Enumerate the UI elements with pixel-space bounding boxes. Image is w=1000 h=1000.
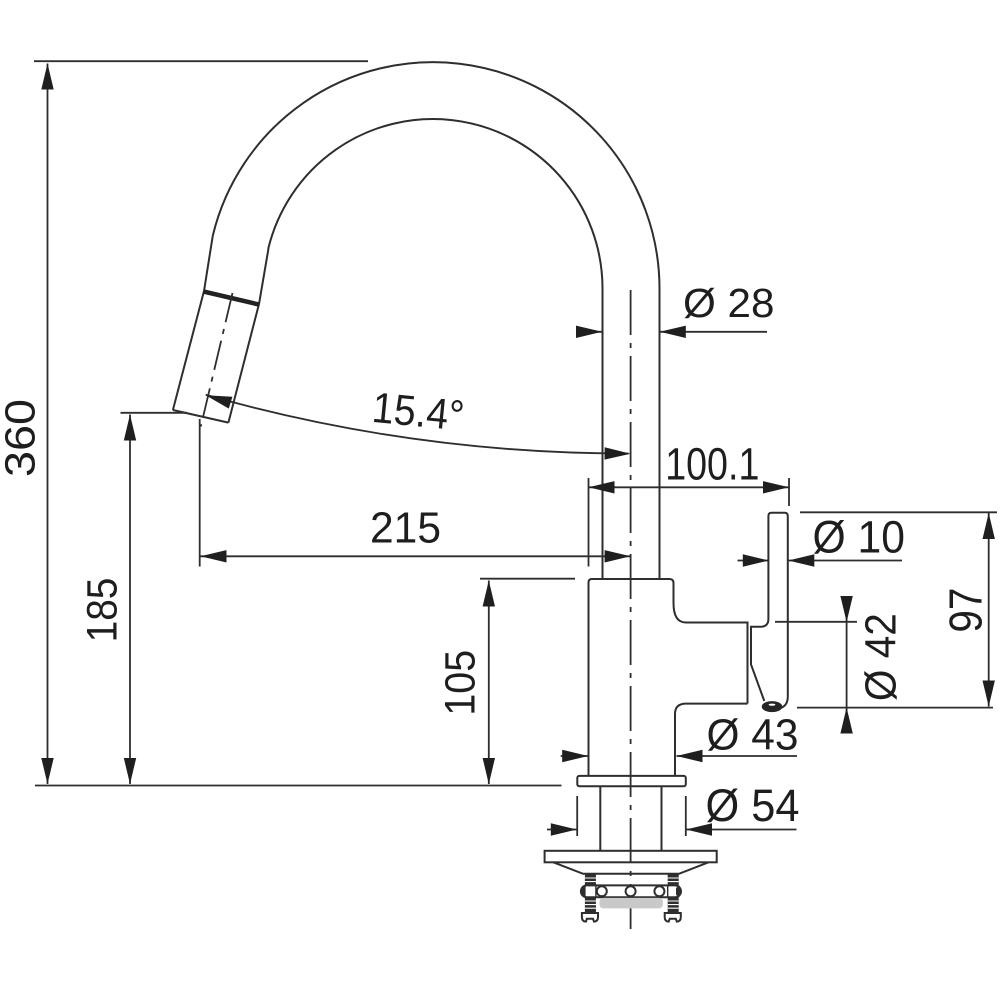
witness d42 top [775, 621, 857, 623]
svg-text:15.4°: 15.4° [370, 384, 466, 441]
svg-text:185: 185 [78, 578, 126, 643]
witness 100.1 left [588, 478, 590, 567]
mounting plate [545, 851, 717, 863]
svg-text:Ø 43: Ø 43 [707, 711, 799, 760]
svg-text:215: 215 [370, 504, 441, 553]
dim line d10 [738, 560, 903, 562]
stud right [668, 874, 679, 914]
svg-text:360: 360 [0, 399, 44, 477]
arrow d10 left [743, 554, 769, 566]
svg-text:97: 97 [940, 588, 992, 633]
stud thread lines [585, 878, 679, 908]
witness d54 right [685, 796, 687, 836]
arrow 97 top [983, 513, 995, 539]
bracket hole 3 [654, 886, 664, 896]
dim line 215 [201, 555, 631, 557]
svg-text:Ø 42: Ø 42 [856, 613, 905, 701]
bracket end clip right [676, 887, 680, 896]
witness 105 top [480, 578, 575, 580]
arrow arc left [206, 395, 233, 408]
arrow d43 right [677, 750, 703, 762]
spray head inner edge [228, 249, 268, 423]
bracket hole 1 [597, 886, 607, 896]
arrow 100.1 left [589, 481, 615, 493]
body under spout holder [675, 704, 748, 776]
svg-text:Ø 54: Ø 54 [706, 780, 800, 831]
stud foot left [582, 913, 598, 922]
arrow d43 left [562, 750, 588, 762]
witness 215 vertical [199, 419, 201, 567]
stud foot right [665, 913, 681, 922]
dim line 97 [988, 513, 990, 707]
arrow d28 left [576, 326, 602, 338]
dim line d54 [547, 829, 797, 831]
svg-text:Ø 28: Ø 28 [683, 280, 775, 326]
dim line d42 [846, 599, 848, 730]
arrow 215 right [605, 550, 631, 562]
witness 97 top [800, 511, 997, 513]
dim line 105 [488, 581, 490, 785]
dim line d43 [561, 755, 797, 757]
baseline [35, 785, 562, 787]
dim line 100.1 [589, 486, 790, 488]
arrow 105 bot [483, 758, 495, 784]
witness 100.1 right [788, 478, 790, 506]
stud edges through bracket [585, 885, 679, 897]
mounting plate skirt [553, 862, 708, 874]
handle lever [768, 513, 787, 709]
spray head outer edge [173, 236, 213, 410]
witness 185 tip [121, 412, 188, 414]
base flange [577, 776, 686, 786]
arrow 100.1 right [763, 481, 789, 493]
arrow d54 left [551, 823, 577, 835]
arrow 360 top [41, 64, 53, 90]
dim line 360 [47, 64, 49, 785]
bracket end clip left [581, 887, 585, 896]
faucet body outline [589, 579, 748, 776]
arrow d10 right [788, 554, 814, 566]
vertical centerline [630, 290, 632, 935]
spray head tip face [173, 410, 229, 423]
spout outer arch and right pipe edge [213, 62, 660, 579]
handle bottom ledge [751, 619, 768, 701]
shank left edge [599, 786, 601, 850]
arrow d54 right [686, 823, 712, 835]
bracket hole 2 [626, 886, 636, 896]
dim line 185 [129, 415, 131, 785]
dim line d28 [577, 331, 767, 333]
witness d54 left [576, 796, 578, 836]
witness 97/d42 bottom [797, 707, 993, 709]
angle arc 15.4 [206, 395, 629, 454]
top reference line [34, 60, 368, 62]
stud left [585, 874, 596, 914]
mounting bracket [581, 885, 681, 897]
arrow d42 top [840, 596, 852, 622]
arrow d28 right [660, 326, 686, 338]
spray head joint line [204, 292, 260, 305]
svg-text:100.1: 100.1 [665, 439, 759, 490]
grey shank shadow [600, 898, 663, 909]
svg-text:105: 105 [437, 650, 485, 716]
outlet nozzle [762, 702, 782, 712]
arrow d42 bot [840, 708, 852, 734]
arrow 215 left [201, 550, 227, 562]
spray head centerline [201, 293, 233, 427]
arrow 105 top [483, 581, 495, 607]
arrow 360 bot [41, 758, 53, 784]
arrow arc right [605, 447, 631, 459]
svg-text:Ø 10: Ø 10 [813, 512, 906, 563]
spout inner arch and left pipe edge [268, 119, 602, 579]
arrow 185 bot [124, 758, 136, 784]
arrow 185 top [124, 415, 136, 441]
arrow 97 bot [983, 681, 995, 707]
shank right edge [661, 786, 663, 850]
